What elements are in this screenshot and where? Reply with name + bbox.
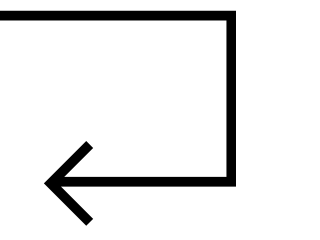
arrowhead pointing left [51,145,90,223]
loop wire: top line, right vertical, bottom shaft [0,16,231,182]
return-left arrow icon [0,0,236,236]
